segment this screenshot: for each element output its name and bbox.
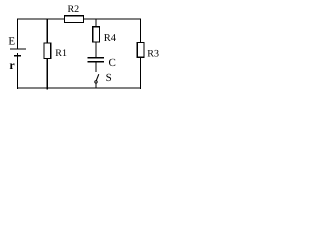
resistor R3: [137, 43, 144, 58]
svg-text:C: C: [109, 57, 116, 69]
wire branch R4 upper: [95, 19, 97, 27]
wire branch R1 lower: [46, 58, 48, 89]
battery E long plate: [10, 48, 26, 50]
svg-text:R3: R3: [147, 48, 159, 59]
resistor R4: [93, 27, 100, 42]
svg-text:R1: R1: [55, 48, 67, 59]
wire left upper (to battery): [17, 18, 19, 49]
capacitor C top plate: [87, 57, 103, 59]
wire capacitor to switch: [95, 62, 97, 72]
svg-text:R2: R2: [68, 4, 80, 15]
svg-text:E: E: [8, 36, 15, 48]
resistor R1: [44, 43, 51, 58]
wire R4 to capacitor: [95, 42, 97, 57]
wire bottom: [17, 87, 141, 89]
svg-text:r: r: [9, 58, 15, 72]
battery E short plate: [14, 55, 21, 57]
svg-text:R4: R4: [104, 33, 117, 44]
switch S blade: [96, 74, 99, 80]
resistor R2: [65, 16, 84, 23]
switch S contact circle: [95, 81, 97, 83]
wire branch R1 upper: [46, 19, 48, 44]
svg-text:S: S: [106, 72, 112, 84]
wire right lower: [139, 57, 141, 89]
capacitor C bottom plate: [87, 61, 103, 63]
wire switch to bottom: [95, 83, 97, 89]
wire left lower (battery stub to bottom): [17, 53, 19, 89]
wire top: [17, 18, 141, 20]
wire right upper: [139, 18, 141, 43]
